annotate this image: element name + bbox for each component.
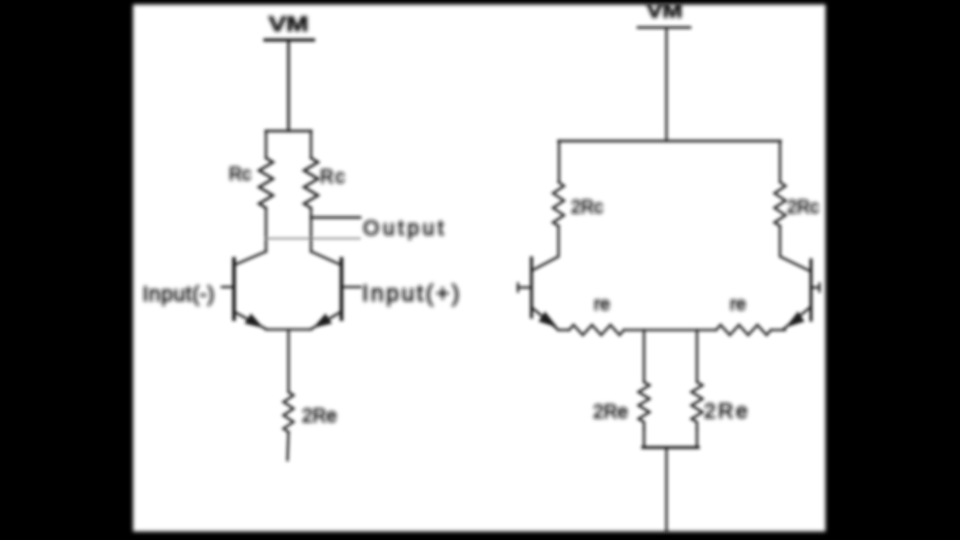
label Input(+) — [362, 280, 462, 306]
svg-text:2Rc: 2Rc — [787, 197, 819, 217]
svg-text:re: re — [594, 294, 610, 314]
wire right 2Re drop — [696, 330, 698, 382]
svg-text:Input(+): Input(+) — [362, 280, 462, 306]
resistor re (left) — [569, 325, 624, 335]
svg-text:re: re — [730, 294, 746, 314]
resistor 2Rc (right) — [775, 182, 786, 226]
supply VM label (right) — [647, 1, 683, 23]
Q4 input tick — [818, 284, 820, 292]
svg-text:2Re: 2Re — [704, 400, 750, 423]
wire output tap upper (from right collector) — [311, 216, 360, 219]
wire emitter junction rail — [266, 328, 311, 330]
label re right — [730, 294, 746, 314]
wire right drop — [779, 141, 781, 182]
Q1 base bar — [232, 259, 236, 319]
Q3 input tick — [517, 284, 519, 292]
resistor 2Re (bottom left) — [639, 382, 650, 429]
wire emitter rail middle segment — [624, 329, 716, 331]
wire + collector lead into Q3 — [533, 226, 559, 270]
resistor 2Re (tail) — [284, 392, 294, 432]
Q2 base bar — [340, 259, 344, 319]
label 2Re bottom left — [593, 402, 628, 423]
resistor Rc (left collector) — [259, 158, 273, 208]
svg-text:Input(-): Input(-) — [143, 283, 216, 306]
svg-text:VM: VM — [647, 1, 683, 23]
wire right branch top — [310, 131, 312, 158]
svg-text:Rc: Rc — [320, 167, 346, 188]
Q1 emitter arrow — [245, 314, 264, 329]
Q2 emitter arrow — [313, 314, 332, 329]
wire output tap lower (from left collector) — [266, 238, 360, 240]
svg-text:Output: Output — [363, 217, 447, 240]
transistor Q4 base bar (right) — [809, 260, 812, 320]
label Input(-) — [143, 283, 216, 306]
wire emitter rail left segment — [558, 329, 569, 331]
wire bottom U bar — [643, 446, 698, 449]
wire left branch bottom — [265, 208, 267, 252]
label re left — [594, 294, 610, 314]
label 2Re tail — [302, 406, 337, 427]
wire left 2Re drop — [643, 330, 645, 382]
svg-text:2Rc: 2Rc — [571, 197, 603, 217]
Q1 emitter lead — [236, 313, 267, 330]
wire bottom stem — [665, 448, 667, 534]
wire right 2Re stub — [696, 429, 698, 447]
Q3 emitter lead — [533, 309, 558, 330]
resistor re (right) — [716, 325, 771, 335]
wire left branch top — [265, 131, 267, 158]
svg-text:2Re: 2Re — [593, 402, 628, 423]
wire top distribution rail — [559, 140, 781, 143]
label 2Rc right — [787, 197, 819, 217]
white schematic panel — [133, 5, 826, 532]
wire left 2Re stub — [643, 429, 645, 447]
wire VM to collector bar — [287, 41, 290, 131]
Q4 emitter arrow — [786, 312, 805, 328]
wire emitter rail right segment — [771, 329, 785, 331]
label 2Rc left — [571, 197, 603, 217]
Q1 base lead — [222, 286, 233, 288]
label Rc right — [320, 167, 346, 188]
supply rail bar under VM (right) — [638, 26, 690, 28]
label 2Re bottom right — [704, 400, 750, 423]
resistor Rc (right collector) — [304, 158, 318, 208]
wire top bar joining both collector branches — [266, 130, 311, 133]
Q2 emitter lead — [311, 313, 340, 330]
Q3 emitter arrow — [539, 312, 558, 328]
supply rail bar under VM — [265, 38, 314, 41]
label Output — [363, 217, 447, 240]
wire left drop — [558, 141, 560, 182]
Q4 base lead — [813, 286, 820, 288]
wire VM down — [665, 29, 667, 141]
resistor 2Rc (left) — [553, 182, 564, 226]
resistor 2Re (bottom right) — [692, 382, 703, 429]
label Rc left — [229, 164, 251, 184]
wire right branch bottom — [310, 208, 312, 252]
Q2 base lead — [343, 286, 361, 288]
wire tail stub — [288, 432, 289, 460]
supply VM label — [269, 13, 309, 36]
Q4 emitter lead — [783, 308, 810, 330]
wire tail down — [287, 330, 289, 393]
Q1 collector lead — [236, 252, 267, 265]
svg-text:Rc: Rc — [229, 164, 251, 184]
transistor Q3 base bar — [530, 258, 533, 317]
Q2 collector lead — [311, 252, 340, 265]
svg-text:VM: VM — [269, 13, 309, 36]
wire + collector lead into Q4 — [780, 226, 810, 271]
svg-text:2Re: 2Re — [302, 406, 337, 427]
Q3 base lead — [518, 286, 530, 288]
